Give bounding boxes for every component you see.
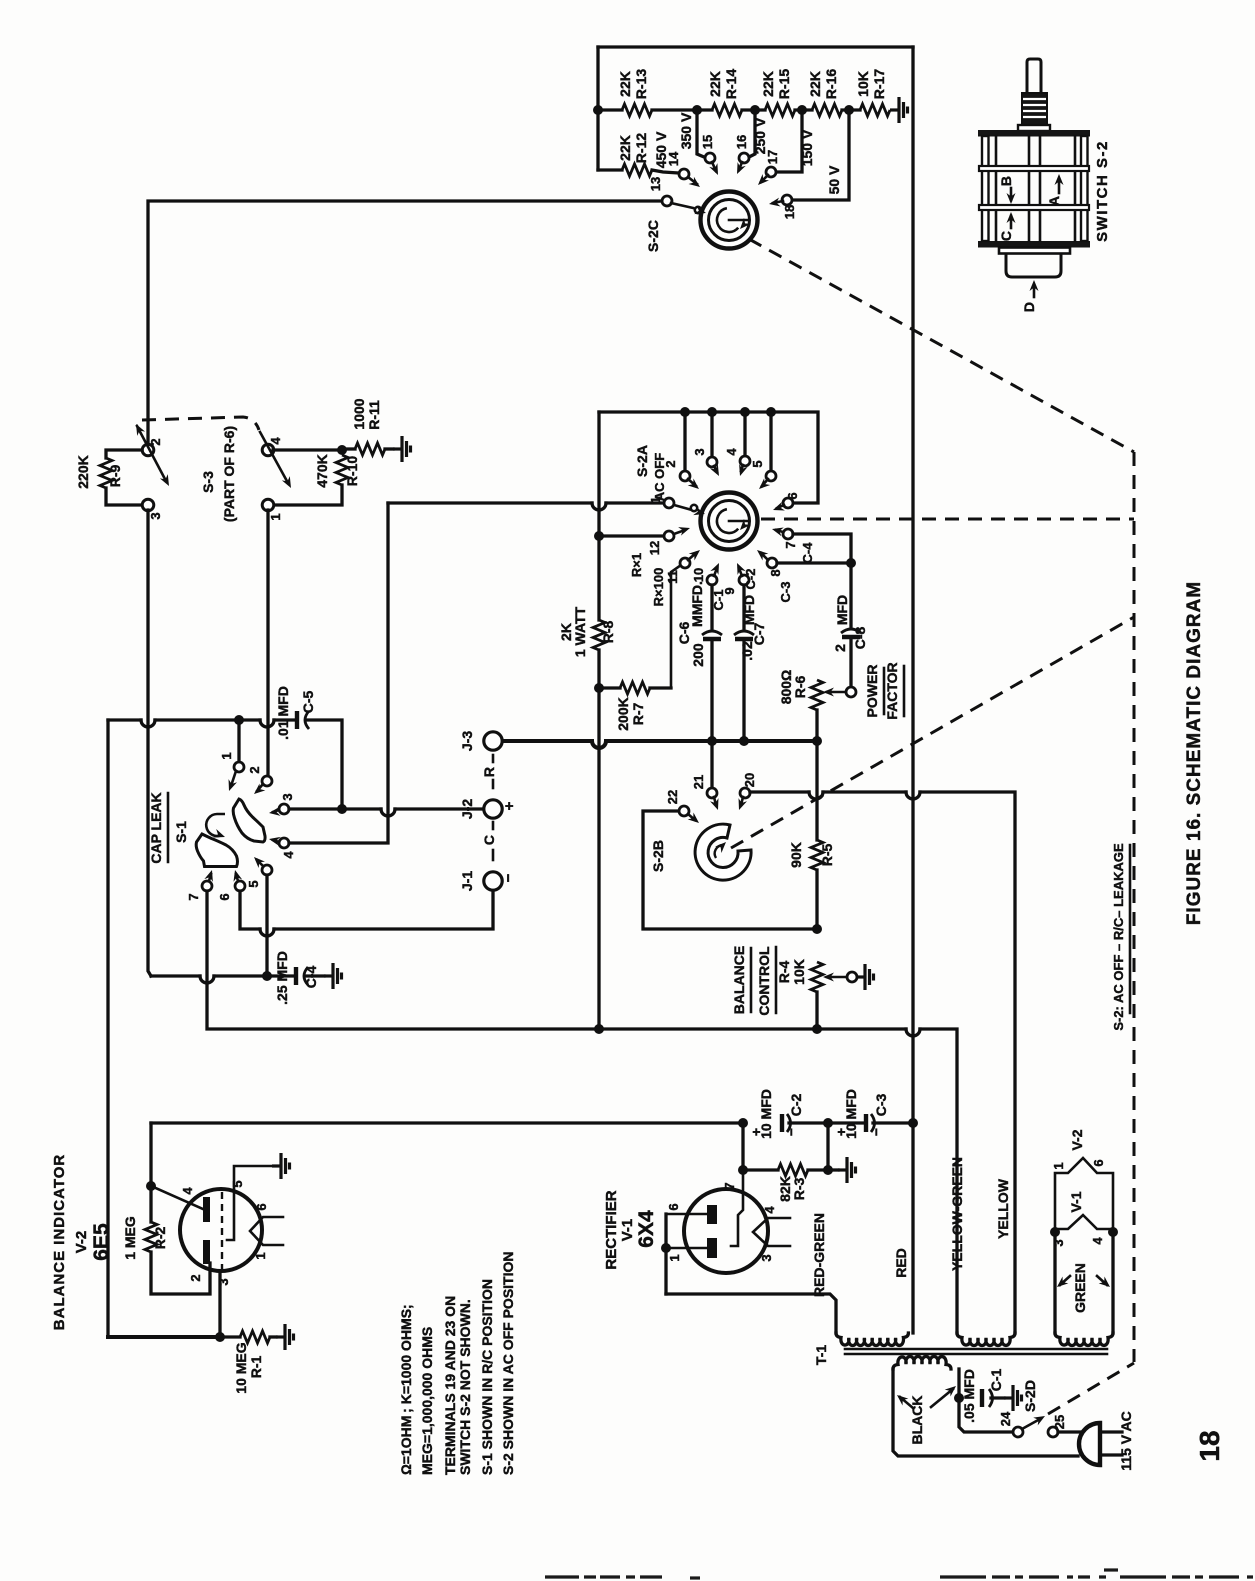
terminal 14 (S-2C) <box>679 169 689 179</box>
svg-text:4: 4 <box>268 437 283 445</box>
transformer T-1 secondary winding 2 (YELLOW-GREEN / YELLOW) <box>957 1333 1015 1346</box>
svg-text:R-12: R-12 <box>633 133 649 164</box>
svg-text:22K: 22K <box>760 71 776 97</box>
switch S-2: wafer 1 <box>979 166 1089 171</box>
svg-text:C-5: C-5 <box>300 691 316 714</box>
svg-text:1 MEG: 1 MEG <box>122 1216 138 1260</box>
svg-text:3: 3 <box>1051 1239 1066 1246</box>
svg-text:10 MEG: 10 MEG <box>233 1342 249 1393</box>
wire: RED-GREEN lead from V-1 plates to transformer <box>666 1294 836 1333</box>
svg-text:R-10: R-10 <box>344 456 360 487</box>
resistor R-12 <box>622 164 652 176</box>
svg-text:V-2: V-2 <box>1069 1129 1085 1150</box>
svg-text:8: 8 <box>768 569 783 576</box>
V-1 plate bars (pins 6 and 1) <box>707 1205 717 1224</box>
svg-text:B: B <box>998 176 1014 186</box>
switch S-2: bottom cup <box>1006 254 1061 278</box>
dashed gang link S-3 <box>142 417 259 430</box>
svg-text:250 V: 250 V <box>752 117 768 154</box>
wire: terminal 25 to plug <box>1058 1430 1085 1433</box>
svg-text:R×100: R×100 <box>651 568 666 607</box>
wire: primary left lead to plug <box>893 1369 1078 1456</box>
svg-text:S-1 SHOWN IN R/C POSITION: S-1 SHOWN IN R/C POSITION <box>479 1279 495 1475</box>
svg-text:FACTOR: FACTOR <box>884 662 900 719</box>
wire: C-4 ground bus <box>151 974 200 977</box>
svg-text:R-7: R-7 <box>630 703 646 726</box>
svg-text:SWITCH S-2 NOT SHOWN.: SWITCH S-2 NOT SHOWN. <box>457 1299 473 1475</box>
wire <box>742 108 765 111</box>
V-2 pin 3 cathode to R-1 <box>218 1271 221 1337</box>
terminal 11 of S-2A <box>680 558 690 568</box>
wire: S-1 terminal 5 down to C-4 bus <box>265 875 268 976</box>
wire: left main rail <box>106 720 109 1337</box>
svg-text:S-2D: S-2D <box>1022 1380 1038 1412</box>
svg-text:R-2: R-2 <box>152 1227 168 1250</box>
wire: RED lead up to B+ rail <box>911 1123 914 1333</box>
svg-text:22: 22 <box>665 790 680 804</box>
svg-text:SWITCH S-2: SWITCH S-2 <box>1094 140 1111 242</box>
resistor R-2 (1 MEG) <box>149 1186 152 1222</box>
V-2 pin 2 target electrode <box>203 1240 210 1264</box>
svg-text:BALANCE INDICATOR: BALANCE INDICATOR <box>51 1154 68 1330</box>
switch S-3 arm at terminal 2 <box>137 426 166 481</box>
svg-text:3: 3 <box>216 1278 231 1285</box>
svg-text:6: 6 <box>1091 1159 1106 1166</box>
switch S-2 mechanical drawing: shaft <box>1027 59 1041 93</box>
svg-text:RECTIFIER: RECTIFIER <box>603 1190 620 1269</box>
rotary switch S-2A rotor <box>701 493 758 550</box>
dashed gang line from S-2A to shaft line <box>761 518 1134 521</box>
V-2 pin 5 grid line to ground <box>227 1166 272 1240</box>
svg-text:S-2C: S-2C <box>645 220 661 252</box>
capacitor C-6 (200 MMFD) <box>710 585 713 629</box>
capacitor C-3 (10 MFD) <box>828 1121 866 1124</box>
svg-text:−: − <box>783 1128 799 1136</box>
svg-text:C-2: C-2 <box>788 1094 804 1117</box>
svg-text:13: 13 <box>648 177 663 191</box>
svg-text:9: 9 <box>722 587 737 594</box>
svg-text:CONTROL: CONTROL <box>756 946 772 1016</box>
switch S-2: body side rails <box>982 136 989 241</box>
dashed R / C markers between jacks <box>492 755 495 762</box>
svg-text:50 V: 50 V <box>826 165 842 194</box>
jack J-1 <box>484 872 502 890</box>
svg-text:C-1: C-1 <box>988 1369 1004 1392</box>
svg-text:6: 6 <box>785 492 800 499</box>
svg-text:10 MFD: 10 MFD <box>758 1089 774 1139</box>
svg-text:7: 7 <box>783 541 798 548</box>
svg-text:4: 4 <box>724 448 739 456</box>
heater bridge V-2 (pins 1,6) <box>1055 1158 1113 1232</box>
svg-text:R-14: R-14 <box>723 69 739 100</box>
svg-text:90K: 90K <box>788 842 804 868</box>
rotary switch S-2C rotor <box>701 192 758 249</box>
wire <box>795 108 812 111</box>
svg-text:5: 5 <box>246 880 261 887</box>
wire: right rail (B+ red rail from top box down to transformer) <box>911 47 914 1123</box>
terminal 9 of S-2A <box>739 575 749 585</box>
switch S-3 terminal 4 <box>262 444 274 456</box>
switch S-2D terminal 24 <box>1013 1427 1023 1437</box>
svg-text:18: 18 <box>782 205 797 219</box>
svg-text:Ω=1OHM ; K=1000 OHMS;: Ω=1OHM ; K=1000 OHMS; <box>398 1304 414 1475</box>
capacitor C-5 (.01 MFD) <box>295 711 299 729</box>
resistor R-10 (470K) <box>336 455 348 485</box>
node: B+ at C-2 <box>738 1118 748 1128</box>
svg-text:24: 24 <box>998 1411 1013 1426</box>
resistor R-8 (2K 1 WATT) <box>593 620 605 650</box>
wire <box>652 108 712 111</box>
svg-text:S-1: S-1 <box>173 821 189 843</box>
wire: divider row <box>598 108 622 111</box>
svg-text:MEG=1,000,000 OHMS: MEG=1,000,000 OHMS <box>419 1327 435 1475</box>
switch S-3 terminal 2 <box>142 444 154 456</box>
ground at R-3 / C-3 <box>828 1168 838 1171</box>
switch S-3 terminal 1 <box>262 499 274 511</box>
svg-text:R×1: R×1 <box>629 553 644 577</box>
V-2 internal dashed beam line <box>221 1192 223 1271</box>
potentiometer R-6 (800 ohm) with wiper from C-8 <box>846 687 856 697</box>
terminal 22 of S-2B <box>679 806 689 816</box>
switch S-2D terminal 25 <box>1048 1427 1058 1437</box>
wire: 150V tap to terminal 17 <box>776 110 802 172</box>
svg-text:CAP LEAK: CAP LEAK <box>148 792 164 863</box>
svg-text:C: C <box>998 231 1014 241</box>
wire: bottom bus hop over RED rail then to YELLOW-GREEN lead <box>906 1029 920 1036</box>
wire: left vertical rail through R-8 R-7 down to bottom bus <box>597 412 600 620</box>
switch S-3 arm at terminal 4 <box>260 432 288 483</box>
svg-text:150 V: 150 V <box>799 129 815 166</box>
svg-text:3: 3 <box>280 793 295 800</box>
svg-text:S-2B: S-2B <box>650 840 666 872</box>
V-1 cathode from pin 7 <box>731 1170 743 1246</box>
terminal 17 (S-2C) <box>766 167 776 177</box>
node: junction dots on divider row <box>593 105 603 115</box>
svg-text:J-1: J-1 <box>459 871 475 891</box>
svg-text:RED-GREEN: RED-GREEN <box>811 1213 827 1297</box>
svg-text:1 WATT: 1 WATT <box>572 606 588 657</box>
wire: S-2A top bus <box>599 412 818 503</box>
svg-text:5: 5 <box>750 460 765 467</box>
svg-text:22K: 22K <box>807 71 823 97</box>
jack J-2 <box>484 800 502 818</box>
svg-text:16: 16 <box>734 135 749 149</box>
svg-text:1: 1 <box>667 1254 682 1261</box>
svg-text:22K: 22K <box>617 135 633 161</box>
svg-text:20: 20 <box>742 773 757 787</box>
svg-text:C-3: C-3 <box>778 582 793 603</box>
svg-text:−: − <box>500 873 517 882</box>
svg-text:R-11: R-11 <box>366 400 382 430</box>
S-2D arm to gang line <box>1022 1419 1040 1429</box>
svg-text:−: − <box>868 1128 884 1136</box>
svg-text:14: 14 <box>666 151 681 166</box>
node: R-7 junction <box>594 683 604 693</box>
svg-text:6E5: 6E5 <box>90 1223 113 1261</box>
svg-text:18: 18 <box>1194 1430 1225 1461</box>
svg-text:200: 200 <box>690 643 706 667</box>
resistor R-15 <box>765 104 795 116</box>
svg-text:10K: 10K <box>791 959 807 985</box>
switch S-2: bottom plate <box>978 241 1090 248</box>
svg-text:C-8: C-8 <box>852 627 868 650</box>
svg-text:C: C <box>481 835 497 845</box>
svg-text:.25 MFD: .25 MFD <box>274 951 290 1005</box>
wire: left edge of divider box <box>596 47 599 170</box>
svg-text:A: A <box>1046 196 1062 206</box>
svg-text:MFD: MFD <box>834 595 850 625</box>
dashed gang line from S-2B to shaft line <box>731 617 1134 848</box>
transformer T-1 primary winding (BLACK) <box>893 1357 951 1370</box>
terminal 7 of S-2A <box>783 529 793 539</box>
terminal 1 (AC OFF) of S-2A <box>388 501 592 504</box>
tube V-1 6X4 envelope <box>684 1189 768 1273</box>
svg-text:AC OFF: AC OFF <box>652 453 667 501</box>
svg-text:R-5: R-5 <box>819 844 835 867</box>
terminal 5 of S-2A <box>766 407 776 417</box>
switch S-2: inner verticals <box>995 136 998 241</box>
terminal 8 of S-2A <box>767 558 777 568</box>
switch S-2: top mounting plate <box>978 130 1090 137</box>
V-2 heater <box>250 1217 283 1245</box>
switch S-2: lower flange <box>999 248 1070 254</box>
svg-text:1: 1 <box>1051 1162 1066 1169</box>
svg-text:R-17: R-17 <box>871 69 887 100</box>
svg-text:2: 2 <box>148 438 163 445</box>
wire: S-1 terminal 3 to J-2 <box>289 807 381 810</box>
wire: 450V tap to terminal 14 <box>598 168 622 171</box>
svg-text:YELLOW-GREEN: YELLOW-GREEN <box>949 1157 965 1271</box>
svg-text:6: 6 <box>217 893 232 900</box>
svg-text:7: 7 <box>186 893 201 900</box>
svg-text:12: 12 <box>647 541 662 555</box>
svg-text:4: 4 <box>762 1206 777 1214</box>
jack J-3 <box>484 732 502 750</box>
svg-text:YELLOW: YELLOW <box>995 1178 1011 1239</box>
wire: S-1 terminal 6 loop to J-1 <box>240 891 260 929</box>
svg-text:R-15: R-15 <box>776 69 792 100</box>
svg-text:22K: 22K <box>617 71 633 97</box>
resistor R-13 <box>622 104 652 116</box>
svg-text:RED: RED <box>893 1248 909 1278</box>
svg-text:3: 3 <box>759 1254 774 1261</box>
switch S-1 terminal 4 <box>279 838 289 848</box>
switch S-1 terminal 5 <box>262 865 272 875</box>
svg-text:2: 2 <box>247 766 262 773</box>
wire: 50V tap to terminal 18 <box>792 110 849 200</box>
terminal 15 (S-2C) <box>705 153 715 163</box>
transformer T-1 core <box>845 1348 1107 1351</box>
label C arrow <box>1010 216 1013 228</box>
terminal 3 of S-2A <box>707 407 717 417</box>
svg-text:470K: 470K <box>314 454 330 487</box>
svg-text:11: 11 <box>665 570 680 584</box>
terminal 2 of S-2A <box>680 407 690 417</box>
svg-text:4: 4 <box>281 851 296 859</box>
svg-text:J-2: J-2 <box>459 799 475 819</box>
svg-text:220K: 220K <box>75 455 91 488</box>
capacitor C-8 (2 MFD) <box>849 563 852 627</box>
switch S-1 terminal 1 <box>237 720 240 763</box>
potentiometer R-4 (10K) balance control <box>811 962 823 992</box>
svg-text:MFD: MFD <box>741 595 757 625</box>
wire: terminal 20 to transformer YELLOW lead (hops R-5 rail and RED rail) <box>750 790 809 793</box>
wire: S-3 terminal 3 down to C-4 bus <box>148 510 151 976</box>
svg-text:S-3: S-3 <box>200 471 216 493</box>
V-2 pin 4 target electrode <box>151 1186 203 1209</box>
switch S-1 terminal 7 <box>202 881 212 891</box>
svg-text:25: 25 <box>1052 1415 1067 1429</box>
resistor R-7 (200K) <box>599 686 620 689</box>
svg-text:R-4: R-4 <box>776 961 792 984</box>
resistor R-11 (1000) to ground <box>347 447 355 450</box>
svg-text:4: 4 <box>180 1187 195 1195</box>
svg-text:10K: 10K <box>855 71 871 97</box>
switch S-2B box wire (terminal 22 common loop) <box>643 811 817 929</box>
svg-text:D: D <box>1021 302 1037 312</box>
terminal 21 of S-2B <box>710 741 713 789</box>
transformer T-1 secondary winding 1 (RED-GREEN / RED) <box>836 1333 908 1346</box>
wire: from S-2C terminal 13 to S-3 arm (long top-left wire) <box>148 201 663 445</box>
svg-text:FIGURE 16. SCHEMATIC DIAGR: FIGURE 16. SCHEMATIC DIAGRAM <box>1184 581 1205 925</box>
capacitor C-4 (.25 MFD) <box>294 967 298 985</box>
resistor R-3 (82K) <box>743 1168 778 1171</box>
svg-text:R-13: R-13 <box>633 69 649 100</box>
svg-text:.01 MFD: .01 MFD <box>275 686 291 740</box>
rotary switch S-2B rotor <box>695 824 751 880</box>
resistor R-5 (90K) <box>815 741 818 840</box>
svg-text:GREEN: GREEN <box>1072 1263 1088 1313</box>
switch S-1 rotor wedge lower <box>196 834 237 867</box>
svg-text:V-2: V-2 <box>73 1231 90 1254</box>
transformer T-1 secondary winding 3 (GREEN heater) <box>1055 1333 1113 1346</box>
label D arrow <box>1033 285 1036 297</box>
label A arrow <box>1058 179 1061 193</box>
svg-text:V-1: V-1 <box>1068 1191 1084 1212</box>
svg-text:.05 MFD: .05 MFD <box>961 1369 977 1423</box>
scan artifact at bottom edge <box>545 1570 1255 1578</box>
wire: C-2 node down to R-3 and V-1 pin 7 <box>741 1123 744 1170</box>
switch S-1 rotation arrow <box>206 814 225 836</box>
switch S-1 terminal 3 <box>279 804 289 814</box>
svg-text:TERMINALS 19 AND 23 ON: TERMINALS 19 AND 23 ON <box>442 1296 458 1475</box>
wire <box>842 108 860 111</box>
svg-text:MMFD.: MMFD. <box>689 581 705 627</box>
terminal 10 of S-2A <box>707 575 717 585</box>
terminal 13 (S-2C) <box>662 196 672 206</box>
svg-text:BLACK: BLACK <box>909 1396 925 1445</box>
svg-text:C-4: C-4 <box>800 542 815 564</box>
switch S-1 terminal 6 <box>235 881 245 891</box>
svg-text:200K: 200K <box>615 697 631 730</box>
svg-text:T-1: T-1 <box>813 1345 829 1365</box>
svg-text:R-8: R-8 <box>600 621 616 644</box>
wire: C-5 bus (top of cap-leak section) <box>108 718 141 721</box>
svg-text:C-3: C-3 <box>873 1094 889 1117</box>
svg-text:+: + <box>501 801 518 810</box>
svg-text:350 V: 350 V <box>678 112 694 149</box>
svg-text:2: 2 <box>188 1274 203 1281</box>
terminal 6 of S-2A <box>783 498 793 508</box>
svg-text:C-4: C-4 <box>303 966 319 989</box>
svg-text:S-2: AC OFF – R/C– LEAKAGE: S-2: AC OFF – R/C– LEAKAGE <box>1111 843 1126 1031</box>
svg-text:21: 21 <box>691 775 706 789</box>
ground at R-17 <box>890 97 908 123</box>
heater bridge V-1 (pins 3,4) <box>1050 1227 1060 1237</box>
R-4 wiper with ground <box>823 973 834 982</box>
wire: S-3 terminal 1 down to S-1 terminal 2 (hops C-5 bus) <box>266 510 269 777</box>
label B arrow <box>1010 188 1013 200</box>
svg-text:15: 15 <box>700 135 715 149</box>
svg-text:10 MFD: 10 MFD <box>843 1089 859 1139</box>
svg-text:6X4: 6X4 <box>635 1210 658 1248</box>
svg-text:1: 1 <box>268 513 283 520</box>
wire: 350V tap to terminal 15 <box>697 110 704 157</box>
capacitor C-2 (10 MFD) <box>780 1114 784 1132</box>
terminal 12 of S-2A <box>594 531 604 541</box>
svg-text:1: 1 <box>253 1252 268 1259</box>
switch S-3 terminal 3 <box>142 499 154 511</box>
svg-text:V-1: V-1 <box>619 1219 636 1242</box>
svg-text:17: 17 <box>765 150 780 164</box>
svg-text:2: 2 <box>832 644 848 652</box>
svg-text:R-3: R-3 <box>791 1178 807 1201</box>
svg-text:1: 1 <box>219 752 234 759</box>
svg-text:R-16: R-16 <box>823 69 839 100</box>
wire: S-1 terminal 4 up to S-2A terminal 1 <box>289 503 388 843</box>
terminal 20 of S-2B <box>740 788 750 798</box>
terminal 4 of S-2A <box>740 407 750 417</box>
svg-text:S-2 SHOWN IN AC OFF POSITI: S-2 SHOWN IN AC OFF POSITION <box>500 1252 516 1476</box>
plug 115 V AC <box>1079 1423 1100 1465</box>
wire: primary right lead to C-1 node and S-2D terminal 24 <box>957 1369 960 1398</box>
svg-text:POWER: POWER <box>864 665 880 718</box>
svg-text:7: 7 <box>722 1182 737 1189</box>
svg-text:4: 4 <box>1090 1237 1105 1245</box>
switch S-1 terminal 2 <box>262 776 272 786</box>
resistor R-17 <box>860 104 890 116</box>
wire: R-7 to terminal 11 <box>671 565 681 688</box>
wire: left rail bottom to R-1 node <box>108 1335 220 1339</box>
svg-text:R-6: R-6 <box>792 676 808 699</box>
capacitor C-1 (.05 MFD) to ground <box>980 1389 984 1407</box>
svg-text:10: 10 <box>691 568 706 582</box>
svg-text:6: 6 <box>254 1203 269 1210</box>
svg-text:C-7: C-7 <box>751 623 767 646</box>
switch S-1 rotor wedge upper <box>233 799 265 842</box>
dashed gang line from S-2C to S-2 common shaft line <box>749 239 1134 452</box>
wire: B- bus from J-3 <box>502 739 592 743</box>
terminal 18 (S-2C) <box>782 195 792 205</box>
svg-text:22K: 22K <box>707 71 723 97</box>
svg-text:R-9: R-9 <box>107 465 123 488</box>
svg-text:115 V AC: 115 V AC <box>1118 1411 1134 1470</box>
svg-text:3: 3 <box>692 448 707 455</box>
svg-text:J-3: J-3 <box>459 731 475 751</box>
capacitor C-7 (.02 MFD) <box>742 585 745 629</box>
resistor R-1 (10 MEG) to ground <box>220 1335 240 1338</box>
dashed S-2 shaft line (vertical) <box>1133 452 1136 1362</box>
resistor R-14 <box>712 104 742 116</box>
wire: GREEN heater leads up to V-1/V-2 heater pins <box>1053 1232 1056 1333</box>
V-1 heater (pins 3 and 4) <box>753 1218 790 1246</box>
svg-text:(PART OF R-6): (PART OF R-6) <box>221 426 237 522</box>
tube V-2 6E5 envelope <box>180 1189 262 1271</box>
svg-text:6: 6 <box>666 1203 681 1210</box>
svg-text:S-2A: S-2A <box>634 445 650 477</box>
svg-text:1000: 1000 <box>351 398 367 429</box>
svg-text:5: 5 <box>230 1180 245 1187</box>
